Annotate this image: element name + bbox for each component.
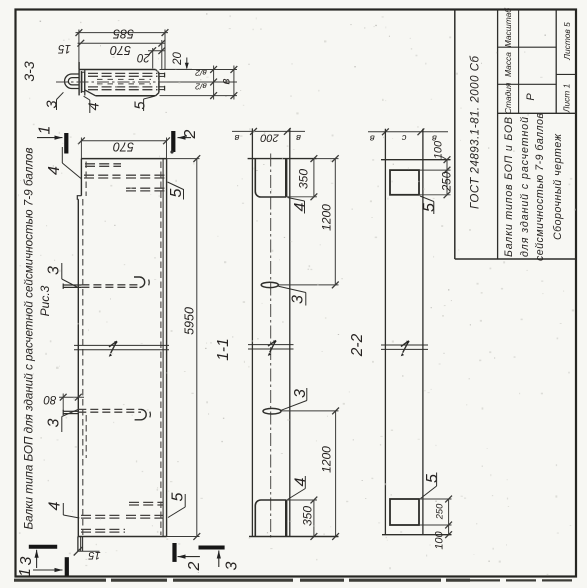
beam C bottom end line bbox=[382, 534, 452, 536]
svg-text:4: 4 bbox=[292, 202, 309, 211]
dim line v/2 v/2 bbox=[213, 66, 215, 100]
anchor bars dashed bottom row1 bbox=[129, 501, 163, 503]
beam 3-3 chamfer top right bbox=[156, 70, 159, 73]
section mark 3 bottom left: arrow bbox=[36, 550, 38, 568]
svg-text:5: 5 bbox=[132, 101, 148, 110]
dim 570 extension lines bbox=[80, 138, 82, 159]
beam top end line bbox=[81, 158, 166, 160]
beam B left edge bbox=[251, 128, 253, 536]
svg-text:20: 20 bbox=[172, 52, 184, 66]
upper hook bar dashed inside bbox=[81, 284, 139, 286]
title block row line Masshtab/Massa bbox=[498, 46, 557, 48]
section mark 3 bottom right: bar bbox=[199, 546, 225, 550]
strand dashes 3-3 row2 short bbox=[97, 78, 151, 80]
beam B right edge bbox=[289, 128, 291, 536]
svg-text:2-2: 2-2 bbox=[349, 333, 366, 357]
beam 3-3 chamfer bottom right bbox=[156, 93, 159, 96]
dim 570 line main view bbox=[81, 140, 166, 142]
svg-text:4: 4 bbox=[87, 102, 103, 110]
title block divider headers/values bbox=[518, 10, 520, 114]
svg-text:5950: 5950 bbox=[183, 307, 197, 335]
beam right edge outer bbox=[166, 159, 168, 537]
dim 350 top line B bbox=[313, 159, 315, 197]
svg-text:570: 570 bbox=[110, 43, 131, 57]
strand dashes 3-3 row3 bbox=[88, 86, 158, 88]
extension to dim 5950 top bbox=[167, 158, 200, 160]
dim 20 second bbox=[186, 58, 188, 69]
box top C extensions bbox=[419, 169, 451, 171]
anchor bars dashed top row3 bbox=[126, 187, 165, 189]
svg-text:Стадия: Стадия bbox=[503, 82, 513, 114]
beam 3-3 right end bbox=[158, 73, 160, 93]
beam B bottom end line bbox=[249, 536, 339, 538]
end plate 3-3 bbox=[78, 62, 80, 95]
dim line B bbox=[233, 66, 235, 100]
svg-text:Рис.3: Рис.3 bbox=[38, 285, 52, 316]
svg-text:100: 100 bbox=[434, 530, 446, 549]
dim 5950 line bbox=[196, 159, 198, 537]
svg-text:в: в bbox=[221, 78, 233, 84]
anchor bars dashed top row1 bbox=[85, 163, 121, 165]
section mark 2 top: thick bar bbox=[171, 131, 175, 152]
svg-text:Масса: Масса bbox=[503, 52, 513, 77]
svg-text:сейсмичностью 7-9 баллов: сейсмичностью 7-9 баллов bbox=[534, 113, 546, 261]
svg-text:5: 5 bbox=[168, 188, 185, 197]
box bottom C extensions bbox=[419, 498, 452, 500]
lower loop oval B bbox=[263, 408, 281, 414]
svg-text:350: 350 bbox=[297, 169, 311, 189]
svg-text:15: 15 bbox=[88, 549, 101, 561]
svg-text:Листов 5: Листов 5 bbox=[562, 22, 572, 61]
box bottom B top extension bbox=[286, 499, 317, 501]
dim 80 extension bbox=[62, 394, 64, 411]
beam 3-3 top edge bbox=[79, 69, 155, 71]
svg-text:для зданий с расчетной: для зданий с расчетной bbox=[519, 117, 531, 257]
beam B centerline bbox=[270, 154, 272, 541]
dim line 250/100 bottom C bbox=[448, 499, 450, 535]
beam C top end line bbox=[381, 159, 451, 161]
svg-text:Лист 1: Лист 1 bbox=[561, 84, 571, 114]
dim 350 bottom line B bbox=[313, 500, 315, 537]
svg-text:1200: 1200 bbox=[320, 204, 334, 231]
beam B top end line bbox=[248, 158, 317, 160]
svg-text:350: 350 bbox=[301, 506, 315, 526]
title block divider GOST column bbox=[497, 10, 499, 260]
svg-text:3: 3 bbox=[18, 556, 35, 565]
svg-text:1-1: 1-1 bbox=[215, 338, 232, 360]
svg-text:Сборочный чертеж: Сборочный чертеж bbox=[552, 133, 564, 240]
svg-text:1: 1 bbox=[36, 126, 53, 135]
dim 585 line bbox=[76, 32, 169, 34]
dim 1200 lower line B bbox=[335, 411, 337, 537]
svg-text:5: 5 bbox=[421, 203, 438, 212]
svg-text:Балки типов БОП и БОВ: Балки типов БОП и БОВ bbox=[503, 117, 515, 257]
svg-text:250: 250 bbox=[441, 171, 453, 192]
svg-text:4: 4 bbox=[292, 477, 309, 486]
box top B bottom extension bbox=[286, 196, 317, 198]
title block row line Massa/Stadia bbox=[498, 83, 557, 85]
anchor bars dashed bottom row2 bbox=[81, 514, 121, 516]
svg-text:с: с bbox=[401, 132, 406, 143]
lower oval extension line bbox=[281, 410, 339, 412]
anchor plate box top C bbox=[390, 170, 419, 195]
beam bottom end line bbox=[78, 536, 166, 538]
strand dashes 3-3 row1 bbox=[88, 72, 158, 74]
section mark 1 top: thick bar bbox=[64, 133, 68, 154]
svg-text:Балки типа БОП для зданий с ра: Балки типа БОП для зданий с расчетной се… bbox=[22, 148, 36, 530]
svg-text:в: в bbox=[370, 132, 375, 143]
anchor plate box bottom C bbox=[390, 499, 419, 525]
dim 570 line 3-3 bbox=[78, 42, 166, 44]
title block row line Listov/List bbox=[556, 73, 576, 75]
beam 3-3 bottom notch chamfer bbox=[85, 90, 96, 96]
protruding strand ends right 3-3 bbox=[159, 73, 165, 75]
dim line 100/250 top C bbox=[446, 160, 448, 195]
anchor plate box bottom B bbox=[255, 500, 286, 537]
dim 15 bottom bbox=[77, 550, 100, 552]
svg-text:3-3: 3-3 bbox=[21, 61, 37, 81]
svg-text:в/2: в/2 bbox=[195, 68, 207, 78]
anchor bars dashed top row2 bbox=[84, 174, 121, 176]
svg-text:4: 4 bbox=[46, 501, 63, 510]
dim 80 line bbox=[59, 396, 84, 398]
svg-text:в/2: в/2 bbox=[195, 82, 207, 92]
break lines B bbox=[248, 344, 294, 346]
dim 1200 upper line B bbox=[334, 159, 336, 285]
beam right edge inner line bbox=[162, 159, 164, 537]
stirrup dashed second fragment bbox=[85, 415, 87, 458]
upper loop oval B bbox=[261, 282, 278, 287]
break lines C bbox=[381, 344, 428, 346]
section mark 3 bottom left: bar bbox=[29, 545, 57, 549]
svg-text:3: 3 bbox=[223, 561, 240, 570]
svg-text:585: 585 bbox=[113, 27, 134, 41]
beam left edge upper bbox=[80, 159, 82, 196]
title block outline bbox=[454, 10, 456, 260]
svg-text:80: 80 bbox=[43, 393, 56, 405]
svg-text:100: 100 bbox=[433, 140, 445, 159]
stirrup dashed line left upper bbox=[85, 162, 87, 197]
montage loop U outer bbox=[65, 74, 80, 89]
svg-text:в: в bbox=[296, 132, 301, 143]
section mark 1 top: arrow bbox=[37, 137, 63, 139]
title block line under stages row bbox=[498, 112, 576, 114]
upper hook bar item 3 protruding end bbox=[63, 284, 81, 286]
dim extension left 3-3 bbox=[78, 30, 80, 70]
dim row v e v line C bbox=[368, 131, 448, 133]
beam left edge lower bbox=[77, 199, 79, 536]
section mark 1 bottom: arrow bbox=[33, 569, 63, 571]
dim row v 200 v line bbox=[232, 130, 305, 132]
svg-text:5: 5 bbox=[169, 492, 186, 501]
svg-text:15: 15 bbox=[58, 42, 71, 54]
bottom end plate protrusion bbox=[77, 537, 79, 552]
extension to dim 5950 bottom bbox=[167, 536, 200, 538]
svg-text:3: 3 bbox=[45, 418, 62, 427]
section mark 1 bottom: bar bbox=[65, 557, 69, 575]
dim 20 first bbox=[152, 48, 154, 69]
svg-text:1200: 1200 bbox=[320, 446, 334, 473]
lower hook arc bbox=[135, 409, 147, 419]
svg-text:3: 3 bbox=[44, 100, 60, 108]
beam C left edge bbox=[384, 129, 386, 535]
break lines main view bbox=[74, 344, 169, 346]
svg-text:200: 200 bbox=[259, 132, 279, 144]
beam C right edge bbox=[422, 129, 424, 535]
svg-text:3: 3 bbox=[289, 295, 306, 304]
svg-text:2: 2 bbox=[186, 561, 203, 571]
anchor plate box top B bbox=[255, 159, 286, 197]
svg-text:1: 1 bbox=[17, 568, 34, 577]
beam 3-3 bottom edge bbox=[95, 95, 155, 97]
bearing step left bbox=[77, 196, 81, 200]
dim extension right 3-3 bbox=[164, 30, 166, 71]
anchor bars dashed bottom row3 bbox=[81, 528, 125, 530]
stirrup dashed line left lower bbox=[82, 199, 84, 535]
svg-text:Масштаб: Масштаб bbox=[503, 8, 513, 47]
svg-text:4: 4 bbox=[46, 166, 63, 175]
dim v/2 v/2 extensions bbox=[160, 69, 238, 71]
section mark 2 top: arrow bbox=[178, 137, 192, 139]
svg-text:5: 5 bbox=[424, 474, 441, 483]
centerline 3-3 bbox=[56, 81, 167, 83]
svg-text:в: в bbox=[234, 132, 239, 143]
svg-text:250: 250 bbox=[435, 503, 445, 520]
section mark 2 bottom: bar bbox=[172, 543, 176, 562]
svg-text:Р: Р bbox=[525, 93, 537, 101]
svg-text:ГОСТ 24893.1-81. 2000 Сб: ГОСТ 24893.1-81. 2000 Сб bbox=[469, 55, 481, 209]
stirrup dashed line right bbox=[160, 162, 162, 536]
upper hook arc bbox=[134, 277, 145, 287]
lower hook bar item 3 protruding end bbox=[63, 410, 78, 412]
montage loop U inner bbox=[68, 78, 79, 85]
title block divider values/list column bbox=[555, 10, 557, 114]
lower hook bar dashed inside bbox=[78, 408, 141, 410]
svg-text:20: 20 bbox=[137, 51, 151, 63]
section mark 3 bottom right: arrow bbox=[218, 551, 220, 568]
section mark 2 bottom: arrow bbox=[178, 556, 200, 558]
svg-text:570: 570 bbox=[113, 139, 134, 153]
upper oval extension line bbox=[278, 284, 338, 286]
